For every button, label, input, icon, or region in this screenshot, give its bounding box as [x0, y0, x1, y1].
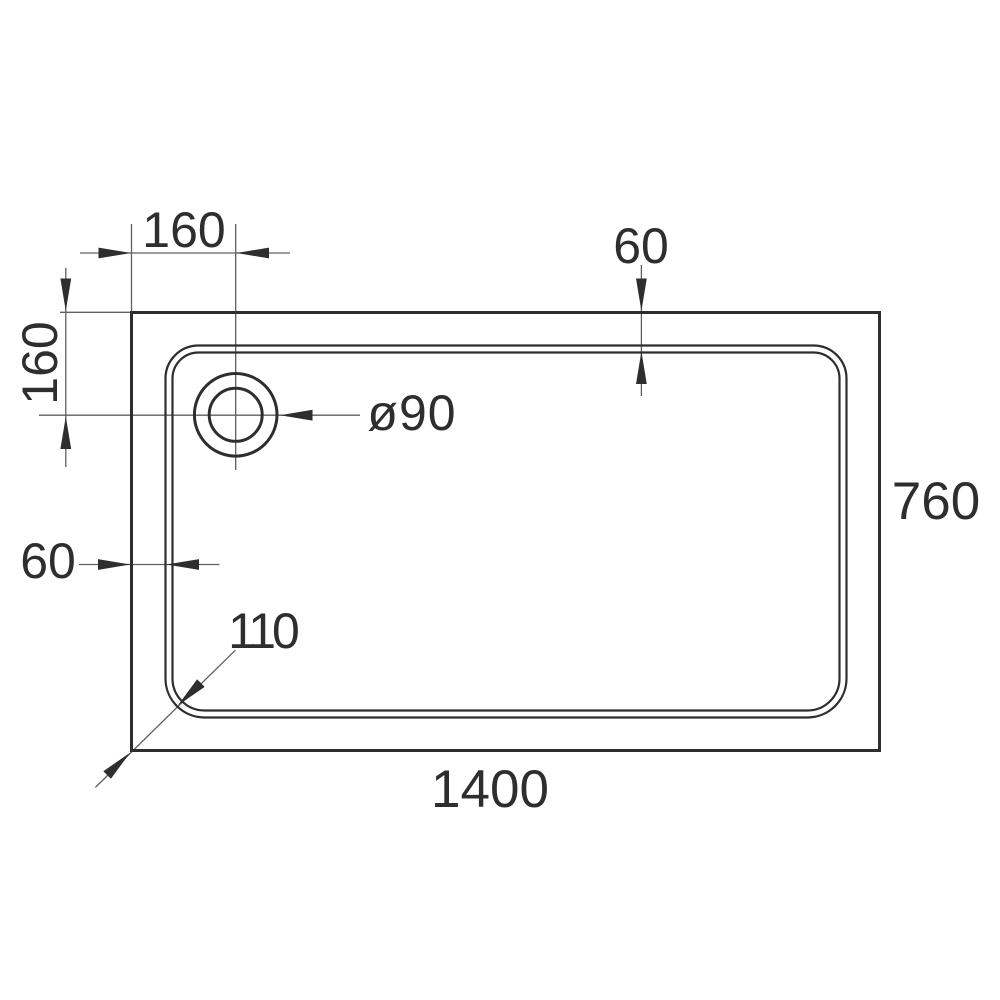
tray outer rectangle — [132, 313, 880, 751]
dimension text 760 (right) — [892, 477, 980, 527]
dimension text 160 (left, rotated) — [15, 321, 65, 404]
wire: drain vertical centerline — [235, 224, 237, 470]
wire: left 160 top extension line — [60, 311, 131, 313]
dimension text 60 (left) — [20, 536, 76, 586]
arrow: top-right 60 upper (points down, tip on tray top edge) — [636, 279, 647, 312]
arrow: left 60 left (points right, tip on tray left edge) — [98, 559, 131, 570]
wire: 110 radius leader diagonal — [95, 650, 235, 787]
arrow: 110 leader lower (points up-right, tip at tray corner) — [103, 753, 130, 779]
arrow: top 160 left (points right, tip on tray left edge ext) — [99, 248, 132, 259]
wire: top 160 dimension line — [80, 252, 290, 254]
arrow: 110 leader upper (points down-left, tip at rim corner arc) — [178, 679, 205, 705]
dimension text ø90 — [367, 388, 456, 438]
wire: top-right 60 dimension line — [640, 265, 642, 396]
arrow: left 60 right (points left, tip on rim left line) — [167, 559, 200, 570]
arrow: top-right 60 lower (points up, tip on rim line) — [636, 352, 647, 385]
drain waste inner circle — [209, 388, 262, 441]
dimension text 60 (top right) — [613, 221, 669, 271]
wire: drain horizontal centerline + ø90 leader — [39, 414, 360, 416]
wire: left 160 dimension line — [65, 268, 67, 467]
dimension text 160 (top) — [142, 205, 225, 255]
dimension text 110 — [228, 606, 296, 656]
arrow: left 160 upper (points down, tip on top edge extension) — [60, 279, 71, 312]
wire: left 60 dimension line — [79, 564, 220, 566]
wire: top 160 left extension line — [131, 224, 133, 311]
tray rim inner rounded rectangle — [173, 353, 840, 711]
tray rim outer rounded rectangle — [166, 346, 847, 718]
drain waste outer circle — [194, 374, 277, 457]
dimension text 1400 (bottom) — [431, 765, 549, 815]
arrow: left 160 lower (points up, tip on drain centerline) — [60, 417, 71, 450]
arrow: top 160 right (points left, tip on drain centerline ext) — [237, 248, 270, 259]
arrow: ø90 leader (points left, tip at drain circle) — [280, 410, 313, 421]
